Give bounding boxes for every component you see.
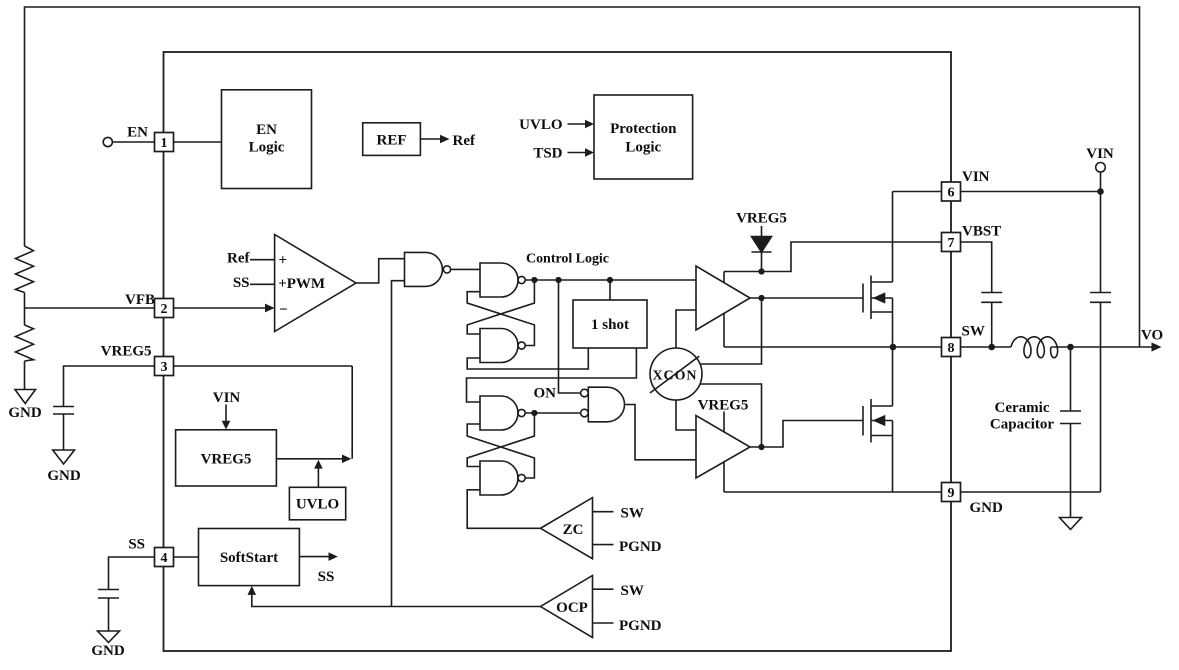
wire OCP input PGND bbox=[593, 622, 614, 624]
svg-text:Ref: Ref bbox=[227, 250, 250, 266]
block REF bbox=[363, 123, 421, 156]
svg-text:VFB: VFB bbox=[125, 292, 155, 308]
svg-text:VREG5: VREG5 bbox=[101, 344, 152, 360]
wire ON branch to and-gate bbox=[559, 280, 581, 393]
wire pin4 to CSS bbox=[109, 557, 155, 590]
wire pin6 to Q1 bbox=[893, 191, 942, 193]
nand U7 output bubble bbox=[518, 409, 525, 416]
wire U3 supply stub bbox=[723, 412, 725, 433]
block UVLO bbox=[289, 487, 345, 520]
wire XCON bottom to low driver bbox=[676, 400, 696, 430]
IC boundary box bbox=[164, 52, 952, 651]
XCON circle bbox=[650, 348, 702, 400]
wire SoftStart SS output bbox=[299, 556, 329, 558]
pin 9 box bbox=[942, 483, 961, 502]
svg-text:6: 6 bbox=[948, 185, 955, 200]
svg-text:GND: GND bbox=[970, 500, 1004, 516]
wire VBST rail to pin7 bbox=[724, 242, 942, 272]
transistor Q1 body stub bbox=[871, 297, 893, 299]
nand U5 output bubble bbox=[518, 276, 525, 283]
svg-text:TSD: TSD bbox=[533, 146, 562, 162]
wire CBST to SW bbox=[991, 302, 993, 347]
svg-text:SW: SW bbox=[621, 506, 644, 522]
wire ZC output to latch2 lower input bbox=[467, 490, 540, 529]
svg-text:EN: EN bbox=[256, 122, 277, 138]
ground COUT bbox=[1060, 518, 1082, 530]
wire U7 output to and-gate bbox=[525, 412, 580, 414]
svg-text:SS: SS bbox=[128, 537, 145, 553]
svg-text:UVLO: UVLO bbox=[519, 117, 562, 133]
wire OCP to nand U4 lower input bbox=[392, 281, 405, 607]
inductor L1 bbox=[1011, 337, 1058, 358]
nand gate U5 (latch1 upper) bbox=[480, 263, 518, 297]
wire latch1 cross-couple A bbox=[467, 280, 534, 334]
wire SW internal line bbox=[724, 346, 942, 348]
wire CREG to ground bbox=[63, 414, 65, 450]
svg-text:+: + bbox=[279, 252, 288, 268]
svg-text:XCON: XCON bbox=[653, 369, 697, 384]
svg-text:−: − bbox=[279, 302, 288, 318]
wire CSS to ground bbox=[108, 598, 110, 631]
wire REF output bbox=[420, 138, 441, 140]
transistor Q1 gate bar bbox=[862, 284, 864, 313]
resistor R2 (feedback divider lower) bbox=[16, 325, 34, 361]
wire VFB tap bbox=[25, 307, 155, 309]
wire pin7 to bootstrap cap bbox=[961, 242, 992, 293]
svg-text:3: 3 bbox=[161, 360, 168, 375]
wire latch2 cross-couple B bbox=[467, 424, 534, 478]
comparator OCP bbox=[541, 576, 593, 638]
wire pin6 to VIN node bbox=[961, 191, 1101, 193]
node ON latch out bbox=[531, 410, 537, 416]
capacitor CBST plates bbox=[981, 293, 1002, 303]
svg-text:8: 8 bbox=[948, 341, 955, 356]
wire VREG5 net to pin3 line bbox=[351, 366, 353, 459]
XCON slash bbox=[650, 356, 699, 393]
svg-text:SoftStart: SoftStart bbox=[220, 550, 278, 566]
nand gate U7 (latch2 upper) bbox=[480, 396, 518, 430]
node L1 out bbox=[1067, 344, 1074, 351]
node control C bbox=[607, 277, 613, 283]
wire U9 output to low driver bbox=[625, 405, 697, 460]
arrowhead REF out bbox=[440, 135, 450, 144]
arrowhead VFB to PWM bbox=[265, 304, 275, 313]
diode D1 cathode bar bbox=[752, 251, 772, 253]
wire U3 lower bracket to GND bbox=[723, 461, 725, 492]
svg-text:ON: ON bbox=[534, 385, 557, 401]
block 1 shot bbox=[573, 300, 647, 348]
transistor Q1 source stub bbox=[871, 311, 893, 313]
pin 8 box bbox=[942, 338, 961, 357]
VIN terminal circle bbox=[1096, 163, 1106, 173]
pin 2 box bbox=[155, 299, 174, 318]
svg-text:PGND: PGND bbox=[619, 618, 662, 634]
node VIN bbox=[1097, 188, 1104, 195]
svg-text:7: 7 bbox=[948, 236, 955, 251]
wire Q2 drain to SW bbox=[892, 347, 894, 406]
node high gate bbox=[758, 295, 764, 301]
wire PWM output bbox=[356, 259, 405, 283]
wire XCON to high gate node bbox=[700, 298, 762, 364]
svg-text:9: 9 bbox=[948, 486, 955, 501]
svg-text:VO: VO bbox=[1141, 328, 1163, 344]
svg-text:Ref: Ref bbox=[453, 133, 476, 149]
svg-text:Protection: Protection bbox=[610, 121, 677, 137]
wire COUT top bbox=[1070, 347, 1072, 411]
svg-text:UVLO: UVLO bbox=[296, 497, 339, 513]
op-amp PWM comparator bbox=[275, 235, 356, 332]
nand U6 output bubble bbox=[518, 342, 525, 349]
wire nand U4 output to latch bbox=[451, 268, 480, 270]
wire Ref to PWM + bbox=[250, 259, 275, 261]
wire OCP input SW bbox=[593, 588, 614, 590]
wire pin3 to CREG bbox=[64, 366, 155, 407]
node VBST diode bbox=[758, 268, 764, 274]
arrowhead UVLO in bbox=[585, 120, 594, 128]
wire D1 to VBST rail bbox=[761, 252, 763, 272]
svg-text:VBST: VBST bbox=[962, 224, 1001, 240]
block EN Logic bbox=[222, 90, 312, 189]
arrowhead VO bbox=[1152, 342, 1162, 351]
block SoftStart bbox=[199, 529, 300, 586]
wire pin1 to EN Logic bbox=[174, 141, 222, 143]
wire divider middle bbox=[24, 293, 26, 326]
transistor Q2 body stub bbox=[871, 420, 893, 422]
wire Q1 source to SW bbox=[892, 298, 894, 347]
svg-text:4: 4 bbox=[161, 551, 168, 566]
wire EN input bbox=[112, 141, 154, 143]
and gate U9 (ON gate) bbox=[588, 387, 624, 422]
svg-text:1: 1 bbox=[161, 136, 168, 151]
wire ZC input SW bbox=[593, 511, 614, 513]
wire XCON top to high driver bbox=[676, 310, 696, 348]
svg-text:VREG5: VREG5 bbox=[736, 211, 787, 227]
diode D1 anode wire bbox=[761, 226, 763, 237]
wire UVLO arrow up bbox=[317, 468, 319, 488]
svg-text:GND: GND bbox=[8, 405, 42, 421]
nand gate U4 (PWM/OCP) bbox=[405, 252, 443, 286]
wire 1shot outA to latch1 lower input bbox=[467, 348, 588, 369]
wire TSD input arrow line bbox=[568, 152, 586, 154]
pin 3 box bbox=[155, 357, 174, 376]
wire branch to 1shot bbox=[609, 280, 611, 300]
wire pin8 to inductor bbox=[961, 346, 1012, 348]
pin 6 box bbox=[942, 182, 961, 201]
transistor Q2 gate bar bbox=[862, 406, 864, 436]
wire Q1 drain to VIN pin6 bbox=[892, 192, 894, 283]
pin 1 box bbox=[155, 133, 174, 152]
transistor Q2 body arrow bbox=[875, 416, 885, 425]
wire high gate drive bbox=[750, 297, 863, 299]
arrowhead VREG5 out bbox=[342, 455, 351, 464]
arrowhead OCP to SoftStart bbox=[248, 586, 257, 595]
wire pin4 to SoftStart bbox=[174, 556, 199, 558]
pin 7 box bbox=[942, 233, 961, 252]
wire VFB pin2 to PWM - bbox=[174, 307, 267, 309]
and U9 input bubble 2 bbox=[581, 409, 589, 417]
nand U4 output bubble bbox=[443, 266, 450, 273]
svg-text:GND: GND bbox=[91, 643, 125, 659]
transistor Q2 drain stub bbox=[871, 405, 893, 407]
node SW bbox=[890, 344, 897, 351]
wire U2 supply bracket bbox=[723, 272, 725, 283]
svg-text:+PWM: +PWM bbox=[278, 276, 325, 292]
svg-text:SW: SW bbox=[962, 324, 985, 340]
svg-text:ZC: ZC bbox=[563, 522, 584, 538]
svg-text:GND: GND bbox=[47, 468, 81, 484]
wire VREG5 output bbox=[276, 458, 343, 460]
transistor Q2 channel bar bbox=[870, 399, 872, 443]
EN input terminal circle bbox=[103, 137, 112, 146]
wire SS to PWM + bbox=[250, 283, 275, 285]
transistor Q2 source stub bbox=[871, 435, 893, 437]
wire CIN to GND line bbox=[1100, 302, 1102, 492]
wire COUT bottom bbox=[1070, 424, 1072, 518]
arrowhead VIN into VREG5 bbox=[222, 421, 231, 430]
wire GND internal line bbox=[724, 491, 942, 493]
svg-text:VIN: VIN bbox=[1086, 146, 1114, 162]
wire latch2 cross-couple A bbox=[467, 413, 534, 467]
block VREG5 bbox=[176, 430, 277, 486]
comparator ZC bbox=[541, 498, 593, 559]
buffer U2 high-side driver bbox=[696, 266, 750, 330]
svg-text:2: 2 bbox=[161, 302, 168, 317]
wire Q2 source to GND bbox=[892, 421, 894, 493]
svg-text:REF: REF bbox=[377, 133, 407, 149]
svg-text:VIN: VIN bbox=[213, 390, 241, 406]
wire U2 lower bracket to SW bbox=[723, 313, 725, 347]
svg-text:PGND: PGND bbox=[619, 539, 662, 555]
block Protection Logic bbox=[594, 95, 693, 179]
wire ZC input PGND bbox=[593, 544, 614, 546]
wire OCP output to SoftStart bbox=[252, 593, 541, 607]
nand gate U6 (latch1 lower) bbox=[480, 329, 518, 363]
ground divider bbox=[15, 390, 36, 404]
wire UVLO input arrow line bbox=[568, 123, 586, 125]
svg-text:VIN: VIN bbox=[962, 169, 990, 185]
svg-text:Logic: Logic bbox=[625, 139, 661, 155]
resistor R1 (feedback divider upper) bbox=[16, 246, 34, 293]
svg-text:SS: SS bbox=[233, 275, 250, 291]
svg-text:Ceramic: Ceramic bbox=[995, 400, 1050, 416]
node low gate bbox=[758, 444, 764, 450]
ground CREG bbox=[53, 450, 75, 464]
capacitor CREG plates bbox=[53, 407, 74, 415]
transistor Q1 channel bar bbox=[870, 276, 872, 320]
pin 4 box bbox=[155, 548, 174, 567]
capacitor COUT plates bbox=[1060, 411, 1081, 424]
wire latch1 cross-couple B bbox=[467, 292, 534, 346]
capacitor CSS plates bbox=[98, 590, 119, 599]
node control B bbox=[555, 277, 561, 283]
nand U8 output bubble bbox=[518, 474, 525, 481]
wire 1shot outB to latch2 upper input bbox=[467, 348, 637, 402]
wire U3 output to Q2 gate bbox=[750, 421, 863, 448]
wire VIN down to cap CIN bbox=[1100, 172, 1102, 292]
wire VO feedback top border bbox=[25, 7, 1140, 347]
wire control logic output line bbox=[525, 279, 696, 281]
svg-text:1 shot: 1 shot bbox=[591, 317, 629, 333]
wire pin3 VREG5 line bbox=[174, 365, 353, 367]
wire divider bottom bbox=[24, 361, 26, 390]
transistor Q1 drain stub bbox=[871, 281, 893, 283]
svg-text:Capacitor: Capacitor bbox=[990, 417, 1054, 433]
wire XCON to low gate node bbox=[700, 384, 762, 447]
node control A bbox=[531, 277, 537, 283]
svg-text:SS: SS bbox=[318, 569, 335, 585]
arrowhead TSD in bbox=[585, 148, 594, 156]
arrowhead UVLO up bbox=[314, 460, 323, 469]
arrowhead SS out bbox=[329, 552, 338, 561]
svg-text:Logic: Logic bbox=[249, 139, 285, 155]
buffer U3 low-side driver bbox=[696, 416, 750, 479]
svg-text:VREG5: VREG5 bbox=[201, 452, 252, 468]
transistor Q1 body arrow bbox=[875, 294, 885, 303]
wire VIN arrow into VREG5 bbox=[225, 405, 227, 422]
wire pin9 to GND node bbox=[961, 491, 1101, 493]
diode D1 bbox=[752, 237, 772, 253]
svg-text:SW: SW bbox=[621, 583, 644, 599]
svg-text:VREG5: VREG5 bbox=[698, 398, 749, 414]
svg-text:EN: EN bbox=[127, 125, 148, 141]
wire L1 to VO bbox=[1051, 346, 1153, 348]
capacitor CIN plates bbox=[1090, 293, 1111, 303]
node CBST-SW bbox=[988, 344, 995, 351]
svg-text:OCP: OCP bbox=[556, 600, 588, 616]
and U9 input bubble 1 bbox=[581, 389, 589, 397]
ground CSS bbox=[98, 631, 120, 643]
nand gate U8 (latch2 lower) bbox=[480, 461, 518, 495]
svg-text:Control Logic: Control Logic bbox=[526, 252, 609, 267]
